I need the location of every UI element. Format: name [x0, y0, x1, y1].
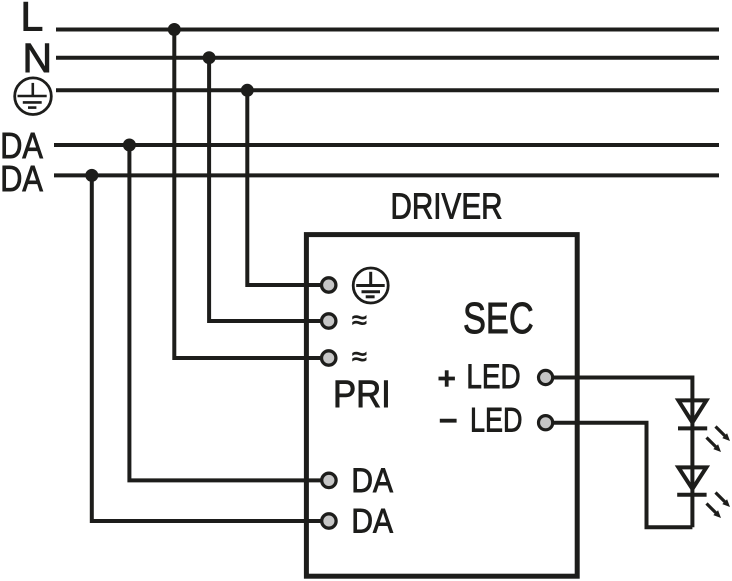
svg-text:N: N	[23, 35, 53, 81]
terminal +LED	[539, 370, 553, 384]
driver box U1	[306, 235, 577, 577]
node L junction	[168, 23, 181, 36]
LED D1	[678, 400, 707, 428]
svg-text:PRI: PRI	[333, 374, 391, 416]
protective earth symbol (mains)	[15, 78, 52, 115]
svg-text:LED: LED	[466, 358, 520, 396]
LED D2	[677, 467, 706, 494]
svg-text:DA: DA	[351, 502, 393, 540]
terminal PE (driver)	[322, 278, 336, 292]
svg-text:DRIVER: DRIVER	[391, 186, 503, 227]
LED D2 light arrows	[707, 493, 731, 519]
svg-text:LED: LED	[470, 401, 522, 439]
wire L drop to AC terminal	[174, 30, 329, 359]
label - (minus)	[440, 419, 457, 423]
terminal AC2 (driver)	[322, 351, 336, 365]
svg-text:≈: ≈	[352, 305, 367, 335]
node N junction	[203, 51, 216, 64]
wire L bus	[56, 28, 719, 32]
svg-text:DA: DA	[351, 462, 393, 500]
wire PE drop to earth terminal	[247, 90, 329, 285]
node PE junction	[241, 84, 254, 97]
wire +LED to LED chain	[546, 378, 692, 528]
svg-text:SEC: SEC	[463, 294, 534, 343]
label + (plus)	[439, 370, 455, 386]
wire DA bus 1	[54, 143, 719, 147]
terminal DA1 (driver)	[322, 473, 336, 487]
wire N bus	[56, 56, 719, 60]
LED D1 light arrows	[707, 427, 731, 453]
wire DA bus 2	[54, 173, 719, 177]
svg-text:L: L	[21, 0, 44, 39]
node DA1 junction	[123, 139, 136, 152]
terminal AC1 (driver)	[322, 314, 336, 328]
earth symbol (driver)	[353, 268, 388, 303]
svg-text:≈: ≈	[352, 342, 367, 372]
svg-text:DA: DA	[0, 158, 43, 199]
wire DA1 drop to DA terminal	[129, 145, 329, 480]
node DA2 junction	[85, 169, 98, 182]
wire N drop to AC terminal	[209, 58, 329, 321]
wire PE bus	[56, 88, 719, 92]
wire DA2 drop to DA terminal	[92, 175, 329, 521]
terminal -LED	[539, 416, 553, 430]
terminal DA2 (driver)	[322, 514, 336, 528]
wire -LED return	[546, 423, 692, 528]
